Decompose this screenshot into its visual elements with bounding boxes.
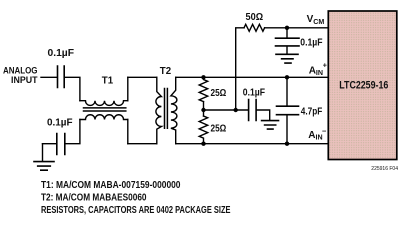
svg-text:0.1µF: 0.1µF xyxy=(243,87,265,98)
capacitor C1 0.1uF input top xyxy=(58,66,65,88)
resistor R1 25ohm xyxy=(199,77,208,101)
wire T1 right top riser xyxy=(127,77,129,100)
wire middle rail xyxy=(204,109,248,111)
svg-text:50Ω: 50Ω xyxy=(246,12,264,23)
svg-text:0.1µF: 0.1µF xyxy=(47,117,73,128)
wire VCM rail xyxy=(265,27,329,29)
IC U1 LTC2259-16 xyxy=(328,11,397,160)
node AIN+ resistor junction xyxy=(201,75,205,79)
svg-text:25Ω: 25Ω xyxy=(211,123,227,134)
svg-text:RESISTORS, CAPACITORS ARE 0402: RESISTORS, CAPACITORS ARE 0402 PACKAGE S… xyxy=(41,205,231,216)
svg-text:T1: MA/COM MABA-007159-000000: T1: MA/COM MABA-007159-000000 xyxy=(41,180,181,191)
wire between resistors xyxy=(203,102,205,116)
resistor R3 50ohm xyxy=(244,24,265,31)
svg-text:225916 F04: 225916 F04 xyxy=(371,166,398,172)
transformer T2 left winding xyxy=(156,77,161,143)
svg-text:25Ω: 25Ω xyxy=(211,88,227,99)
wire 50ohm branch vertical xyxy=(236,28,244,110)
node AIN- cap junction xyxy=(285,142,289,146)
capacitor C4 0.1uF VCM xyxy=(286,28,288,38)
node middle branch junction xyxy=(234,108,238,112)
wire C3 to ground xyxy=(257,110,270,120)
capacitor C5 4.7pF xyxy=(286,77,288,105)
wire ground to C2 xyxy=(43,143,56,145)
svg-text:T2: MA/COM MABAES0060: T2: MA/COM MABAES0060 xyxy=(41,193,147,204)
svg-text:LTC2259-16: LTC2259-16 xyxy=(339,79,388,91)
ground input xyxy=(42,144,44,161)
transformer T1 core xyxy=(84,108,126,111)
wire AIN- rail xyxy=(176,143,329,145)
node AIN+ cap junction xyxy=(285,75,289,79)
wire T1 right bottom drop xyxy=(127,120,129,144)
svg-text:T1: T1 xyxy=(102,76,114,87)
transformer T2 core xyxy=(165,89,168,129)
svg-text:0.1µF: 0.1µF xyxy=(48,48,75,59)
wire cap to T1 top xyxy=(65,77,80,100)
wire C2 to T1 bottom xyxy=(66,120,80,144)
capacitor C2 0.1uF input bottom xyxy=(57,134,65,155)
wire AIN+ rail xyxy=(176,76,329,78)
svg-text:T2: T2 xyxy=(160,66,171,77)
wire analog input top xyxy=(41,76,57,78)
transformer T2 right winding xyxy=(171,77,177,143)
resistor R2 25ohm xyxy=(199,116,208,144)
svg-text:0.1µF: 0.1µF xyxy=(300,37,322,48)
transformer T1 top winding xyxy=(80,101,128,106)
node AIN- resistor junction xyxy=(201,142,205,146)
transformer T1 bottom winding xyxy=(80,115,128,120)
node middle resistor junction xyxy=(201,108,205,112)
wire bridge top T1 to T2 xyxy=(128,76,157,78)
ground VCM xyxy=(276,54,298,63)
wire bridge bottom T1 to T2 xyxy=(128,143,157,145)
svg-text:INPUT: INPUT xyxy=(11,74,38,85)
svg-text:4.7pF: 4.7pF xyxy=(301,107,323,118)
node VCM junction xyxy=(285,26,289,30)
capacitor C3 0.1uF middle xyxy=(249,100,257,121)
ground middle xyxy=(262,121,279,130)
